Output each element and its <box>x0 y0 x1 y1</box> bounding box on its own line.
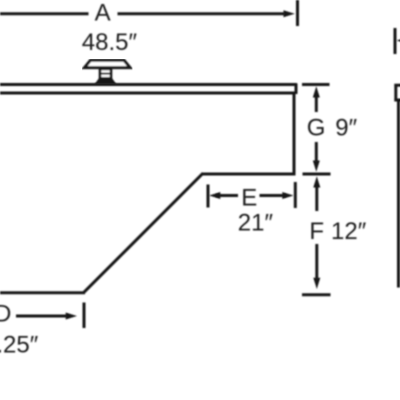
wire extension line E right / wall extension <box>294 182 297 208</box>
dim D right arrowhead <box>66 313 77 320</box>
filler cap base flange <box>97 78 115 83</box>
wire dim G top extension line <box>302 83 330 86</box>
wire dim F lower stem <box>315 244 318 280</box>
svg-text:D: D <box>0 301 11 328</box>
svg-text:E: E <box>241 184 257 211</box>
dim G up arrowhead <box>313 86 320 97</box>
svg-text:21″: 21″ <box>238 210 274 237</box>
wire dim F bottom tick <box>302 293 331 296</box>
filler cap stem ridge <box>99 73 112 75</box>
filler cap F1 <box>85 60 131 83</box>
filler cap top trapezoid <box>85 60 131 67</box>
wire dim G notch extension line <box>303 173 331 176</box>
svg-text:G: G <box>307 114 326 141</box>
view2 dim left arrowhead <box>397 37 400 44</box>
wire tank diagonal <box>84 173 203 292</box>
svg-text:48.5″: 48.5″ <box>82 29 138 56</box>
wire view2 band bottom bar <box>394 99 400 102</box>
wire dim G lower stem <box>315 142 318 162</box>
wire dim D line <box>16 315 68 318</box>
wire dim D tick <box>83 303 86 329</box>
svg-text:9″: 9″ <box>335 114 357 141</box>
wire dim A line left segment <box>0 12 89 15</box>
wire dim E left tick <box>207 185 210 208</box>
wire tank bottom <box>0 291 85 294</box>
dim E left arrowhead <box>209 192 220 199</box>
dim F up arrowhead <box>313 176 320 187</box>
wire tank notch top <box>202 173 296 176</box>
svg-text:0.25″: 0.25″ <box>0 331 39 358</box>
wire dim F upper stem <box>315 185 318 211</box>
wire view2 top bar <box>394 84 400 87</box>
wire view2 dim tick <box>394 28 397 54</box>
wire dim A line right segment <box>118 12 286 15</box>
wire view2 lip vertical <box>394 84 397 101</box>
wire tank top inner band line <box>0 92 295 95</box>
wire tank top outer line <box>0 83 297 86</box>
filler cap stem <box>100 69 111 79</box>
wire view2 left wall <box>397 100 400 288</box>
wire tank top lip right drop <box>295 84 298 95</box>
svg-text:12″: 12″ <box>331 218 367 245</box>
svg-text:F: F <box>309 218 324 245</box>
wire dim G upper stem <box>315 95 318 112</box>
wire tank right wall <box>293 93 296 175</box>
dim G down arrowhead <box>313 161 320 172</box>
wire dim E line right segment <box>260 194 287 197</box>
svg-text:A: A <box>95 0 111 26</box>
dim E right arrowhead <box>282 192 293 199</box>
dim F down arrowhead <box>313 278 320 289</box>
wire dim A right tick <box>296 0 299 26</box>
wire dim E line left segment <box>216 194 238 197</box>
dim A right arrowhead <box>284 10 295 17</box>
